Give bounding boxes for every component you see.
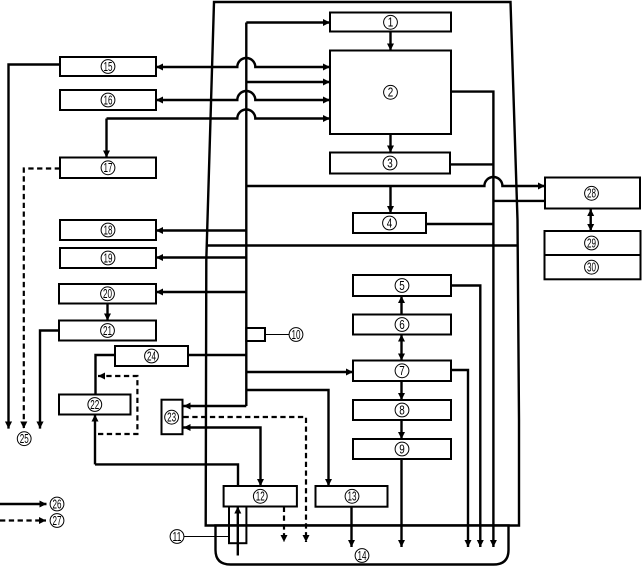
wire: box 13 down to bottom arrow: [350, 507, 352, 547]
box 16: [60, 90, 156, 110]
box 20: [59, 284, 156, 304]
label 28: [585, 186, 599, 200]
svg-text:5: 5: [399, 279, 405, 293]
wire: box 8 down to box 9: [400, 420, 402, 439]
wire: legend solid arrow 26: [0, 503, 47, 505]
label 22: [88, 398, 102, 412]
svg-text:12: 12: [256, 490, 265, 504]
wire: branch down into box 4: [389, 186, 391, 213]
svg-text:16: 16: [104, 93, 113, 107]
wire: right vertical to box 28 left: [493, 200, 545, 202]
box 6: [353, 315, 451, 335]
wire: box 22 bottom feed to box 12 top: [95, 464, 238, 486]
box 17: [60, 158, 156, 179]
wire: box 24 right to bus: [188, 354, 246, 356]
wire: bus to box 20: [156, 291, 246, 293]
dashed wire: loop right of box 22: [98, 376, 137, 434]
label 6: [395, 318, 409, 332]
label 18: [101, 223, 115, 237]
wire: box 4 right to right vertical: [426, 223, 493, 225]
svg-text:25: 25: [20, 432, 29, 446]
leader line for label 10: [265, 334, 289, 336]
label 19: [101, 251, 115, 265]
label 15: [101, 60, 115, 74]
box 18: [60, 220, 156, 240]
svg-text:15: 15: [104, 60, 113, 74]
box 19: [60, 248, 156, 268]
dashed wire: legend dashed arrow 27: [0, 519, 46, 521]
label 2: [384, 85, 398, 99]
svg-text:17: 17: [104, 161, 113, 175]
wire: box 23 lower arrow / corner down into box 12: [184, 428, 261, 487]
svg-text:30: 30: [587, 261, 596, 275]
label 12: [253, 489, 267, 503]
svg-text:21: 21: [103, 324, 112, 338]
wire: bus bottom to box 23 (upper arrow): [184, 405, 247, 407]
svg-text:7: 7: [399, 364, 405, 378]
svg-text:29: 29: [587, 236, 596, 250]
device outline (trapezoid body): [206, 2, 519, 526]
label 24: [145, 349, 159, 363]
wire: box 6 / box 7 bidirectional: [400, 335, 402, 361]
wire: arrow up through box 11 into box 12: [237, 507, 239, 556]
svg-text:4: 4: [387, 216, 393, 230]
section divider line: [207, 244, 518, 246]
leader line for label 11: [184, 536, 229, 538]
label 14: [355, 549, 369, 563]
box 12: [224, 486, 297, 507]
wire: box 6 up into box 5: [400, 296, 402, 315]
wire: box 1 down to box 2: [389, 32, 391, 51]
wire: bus to box 28 (hop over right vertical): [246, 177, 545, 186]
svg-text:8: 8: [399, 403, 405, 417]
box 15: [60, 57, 156, 76]
svg-text:2: 2: [388, 86, 394, 100]
box 8: [353, 400, 451, 420]
box 11 (small open box under box 12): [229, 507, 246, 544]
wire: box 3 right to right vertical: [450, 163, 493, 165]
label 5: [395, 279, 409, 293]
wire: box 24 left down to box 22 top: [96, 355, 116, 395]
svg-text:19: 19: [104, 251, 113, 265]
svg-text:11: 11: [173, 530, 182, 544]
box 23 (tall narrow): [162, 400, 183, 435]
dashed wire: box 17 left down to arrow 25 group: [24, 169, 60, 429]
label 8: [395, 403, 409, 417]
wire: bus to box 2 (second input): [246, 81, 330, 83]
box 14 (rounded bottom tray): [216, 526, 509, 565]
wire: bus to box 18: [156, 229, 246, 231]
svg-text:14: 14: [358, 549, 367, 563]
wire: box 16 to box 2 (bidirectional, hop over bus): [156, 91, 330, 100]
label 29: [585, 236, 599, 250]
box 5: [353, 275, 451, 296]
box 9: [353, 439, 451, 459]
label 3: [383, 156, 397, 170]
svg-text:28: 28: [587, 187, 596, 201]
box 28: [545, 178, 640, 209]
wire: box 7 right, down to bottom arrow: [451, 370, 468, 547]
wire: box 20 down to box 21: [106, 304, 108, 321]
box 4: [353, 213, 426, 233]
label 7: [395, 364, 409, 378]
label 21: [101, 324, 115, 338]
box 30: [545, 255, 641, 279]
box 22: [59, 395, 131, 415]
box 1: [330, 13, 451, 32]
svg-text:27: 27: [53, 514, 62, 528]
dashed wire: box 23 right, down to bottom arrow: [184, 417, 307, 542]
svg-text:26: 26: [53, 497, 62, 511]
box 2: [330, 51, 451, 135]
svg-text:3: 3: [387, 156, 393, 170]
svg-text:22: 22: [90, 398, 99, 412]
box 13: [316, 486, 388, 507]
svg-text:6: 6: [399, 318, 405, 332]
label 10: [289, 328, 303, 342]
box 3: [330, 153, 450, 174]
wire: main vertical bus: [245, 23, 247, 407]
label 25: [17, 432, 31, 446]
box 24: [115, 346, 188, 366]
label 23: [165, 410, 179, 424]
wire: box 5 right, down to bottom arrow: [451, 286, 480, 548]
svg-text:20: 20: [103, 287, 112, 301]
label 13: [345, 489, 359, 503]
box 29: [545, 231, 641, 255]
label 27: [50, 514, 64, 528]
label 17: [101, 161, 115, 175]
box 10 (small stub box on bus): [246, 328, 265, 341]
wire: bus to box 19: [156, 256, 246, 258]
box 7: [353, 361, 451, 382]
wire: box 2 down to box 3: [389, 134, 391, 153]
label 4: [383, 216, 397, 230]
wire: bus to box 13 (corner down): [246, 390, 328, 486]
dashed wire: box 12 bottom down arrow: [283, 507, 285, 542]
wire: arrow up into box 22 bottom: [94, 415, 96, 465]
wire: box 2 right, down right vertical to bottom arrow: [451, 92, 493, 547]
wire: box 9 down to bottom arrow: [400, 459, 402, 547]
box 21: [59, 321, 156, 341]
svg-text:1: 1: [388, 16, 394, 30]
label 11: [170, 530, 184, 544]
label 16: [101, 93, 115, 107]
svg-text:9: 9: [399, 442, 405, 456]
wire: bus top to box 1 arrow: [246, 21, 330, 23]
wire: box 28 / box 29 bidirectional: [590, 209, 592, 231]
label 1: [384, 15, 398, 29]
wire: box 15 left down to arrow 25 group: [9, 65, 61, 429]
wire: box 7 down to box 8: [400, 381, 402, 400]
label 26: [50, 497, 64, 511]
wire: box 15 to box 2 (bidirectional, hop over bus): [156, 58, 330, 67]
svg-text:10: 10: [292, 328, 301, 342]
svg-text:24: 24: [147, 349, 156, 363]
label 30: [585, 260, 599, 274]
wire: line y=118.5 to box 2 (hop over bus): [107, 110, 331, 119]
label 20: [101, 287, 115, 301]
wire: box 21 left down to arrow 25 group: [40, 331, 59, 429]
svg-text:13: 13: [348, 490, 357, 504]
wire: bus to box 7: [246, 371, 353, 373]
label 9: [395, 442, 409, 456]
svg-text:18: 18: [104, 223, 113, 237]
svg-text:23: 23: [167, 411, 176, 425]
wire: branch down into box 17: [105, 119, 107, 158]
